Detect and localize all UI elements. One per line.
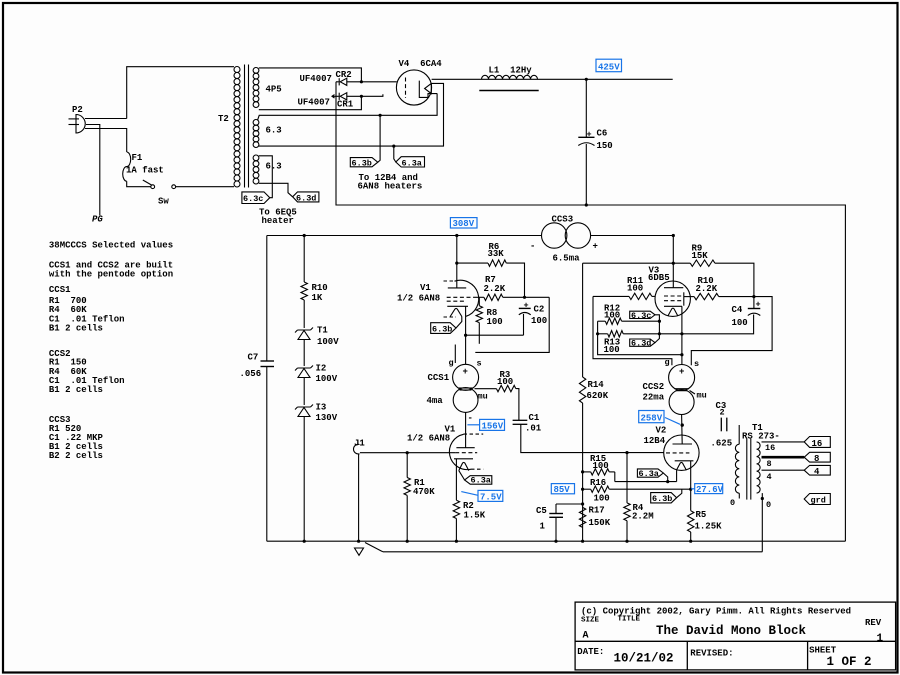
tag 4 — [804, 465, 830, 475]
svg-text:R16: R16 — [590, 478, 606, 488]
transformer T2 — [234, 65, 259, 188]
T1 primary coil — [735, 444, 739, 493]
svg-text:1K: 1K — [312, 293, 323, 303]
svg-text:100: 100 — [487, 317, 503, 327]
wire CCS1 mu to R3 — [475, 388, 497, 390]
svg-text:mu: mu — [478, 392, 488, 402]
svg-text:0: 0 — [766, 500, 771, 510]
V1 triode plate bar — [456, 447, 474, 449]
svg-text:C7: C7 — [248, 353, 259, 363]
resistor R14 620K — [579, 377, 585, 541]
resistor R2 1.5K — [453, 500, 459, 541]
resistor R12 100 — [605, 318, 621, 324]
wire 6.3b link — [677, 489, 682, 498]
tag 6.3a heater — [396, 157, 425, 167]
svg-text:.01: .01 — [525, 424, 542, 434]
wire C1 to V2 grid — [521, 424, 664, 452]
rectifier tube V4 — [396, 70, 672, 105]
svg-text:100: 100 — [593, 461, 609, 471]
wire 4P5 bottom tap riser — [259, 96, 362, 109]
wire R15 drop — [614, 472, 616, 482]
zener I3 — [295, 405, 313, 410]
svg-text:CCS1: CCS1 — [428, 373, 450, 383]
wire R7 to wrap node — [503, 296, 549, 298]
svg-text:1: 1 — [540, 522, 546, 532]
svg-text:470K: 470K — [413, 487, 435, 497]
wire riser to top rail — [127, 67, 234, 119]
T1 core — [746, 439, 748, 500]
svg-text:85V: 85V — [554, 485, 571, 495]
svg-text:4ma: 4ma — [427, 396, 444, 406]
resistor R6 33K — [488, 260, 506, 266]
wire heater bus — [615, 481, 677, 483]
wire B- vertical from diodes — [336, 82, 845, 541]
svg-text:REVISED:: REVISED: — [690, 649, 733, 659]
tag 6.3d V3 — [630, 339, 655, 346]
wire heater to 6.3b tag — [456, 317, 462, 329]
svg-text:+: + — [679, 367, 684, 377]
fuse F1 — [123, 152, 131, 181]
svg-text:6.3a: 6.3a — [471, 476, 491, 486]
svg-text:10/21/02: 10/21/02 — [614, 652, 674, 666]
V1 triode cathode bar — [454, 458, 473, 460]
current source CCS3 — [542, 223, 567, 248]
resistor R10 2.2K — [694, 293, 719, 299]
V3 heater — [668, 308, 678, 316]
wire 6.3c link — [655, 315, 659, 321]
svg-text:425V: 425V — [598, 63, 620, 73]
svg-text:.056: .056 — [240, 369, 262, 379]
T2 primary winding — [234, 67, 240, 73]
svg-text:620K: 620K — [587, 391, 609, 401]
wire rail to R6 junction and V1 plate — [456, 236, 458, 288]
wire 6.3 low top tap to 6.3c — [259, 156, 273, 198]
svg-text:100: 100 — [627, 284, 643, 294]
V4 plate bar dashed — [405, 78, 407, 99]
capacitor C2 — [519, 307, 531, 309]
wire R9 15K feed — [583, 262, 691, 264]
wire heater to 6.3a — [459, 471, 465, 480]
tube V2 circle — [664, 435, 699, 470]
switch Sw — [151, 185, 155, 189]
wire CR1 output — [336, 94, 383, 96]
V4 cathode structure — [419, 81, 437, 98]
wire 6.3 low bottom tap to 6.3d — [259, 183, 293, 197]
svg-text:308V: 308V — [453, 219, 475, 229]
svg-text:+: + — [587, 130, 592, 140]
svg-text:A: A — [583, 631, 589, 642]
wire cathode node to C2 — [466, 334, 524, 336]
svg-text:heater: heater — [262, 216, 294, 226]
wire plug to fuse — [85, 129, 127, 153]
svg-text:6.3a: 6.3a — [402, 158, 422, 168]
svg-text:8: 8 — [814, 454, 819, 464]
svg-text:1A fast: 1A fast — [126, 166, 164, 176]
voltage label 258V — [639, 411, 680, 425]
junction heater bus / tag drop — [379, 114, 382, 117]
svg-text:8: 8 — [767, 459, 772, 469]
svg-text:-: - — [468, 414, 473, 424]
wire 6.3b tag drop — [378, 115, 380, 162]
svg-text:mu: mu — [697, 391, 707, 401]
svg-text:6.3: 6.3 — [266, 162, 282, 172]
svg-text:12B4: 12B4 — [644, 436, 666, 446]
wire R3 to C1 — [516, 389, 519, 421]
svg-text:CCS1: CCS1 — [49, 285, 71, 295]
svg-text:22ma: 22ma — [643, 393, 665, 403]
svg-text:R5: R5 — [696, 510, 707, 520]
svg-text:2.2K: 2.2K — [696, 284, 718, 294]
svg-text:+: + — [524, 301, 529, 311]
V3 cathode bar — [664, 305, 682, 307]
wire main rail — [267, 235, 674, 237]
svg-text:6.3b: 6.3b — [432, 325, 452, 335]
junction 4P5 top / CR2 wire — [360, 80, 363, 83]
wire rail to R10 — [303, 236, 305, 283]
V1 triode heater — [459, 462, 469, 470]
zener I2 — [295, 366, 313, 371]
svg-text:s: s — [477, 359, 482, 369]
V2 plate bar — [673, 443, 693, 445]
svg-text:100V: 100V — [317, 337, 339, 347]
choke L1 — [479, 75, 538, 90]
svg-text:156V: 156V — [482, 422, 504, 432]
svg-text:16: 16 — [765, 443, 775, 453]
wire 6.3 mid bottom tap — [259, 83, 444, 146]
V1 pentode heater — [450, 308, 462, 316]
svg-text:C6: C6 — [597, 129, 608, 139]
svg-text:6.3b: 6.3b — [652, 494, 672, 504]
svg-text:100: 100 — [604, 345, 620, 355]
tag 6.3b V2 — [651, 493, 677, 503]
wire tap 16 — [762, 441, 805, 443]
svg-text:R14: R14 — [588, 380, 605, 390]
svg-text:+: + — [756, 300, 761, 310]
svg-text:6.3a: 6.3a — [639, 469, 659, 479]
svg-text:UF4007: UF4007 — [298, 98, 330, 108]
resistor R9 15K — [690, 260, 715, 266]
svg-text:C1: C1 — [529, 413, 540, 423]
resistor R11 100 — [629, 293, 652, 299]
wire R14 ladder column — [582, 263, 584, 377]
svg-text:4: 4 — [767, 472, 772, 482]
wire secondary bottom to lower rail — [761, 493, 763, 552]
svg-text:6.3: 6.3 — [266, 126, 282, 136]
V2 grid dashes — [666, 452, 689, 454]
svg-text:g: g — [449, 358, 454, 368]
resistor R5 1.25K — [688, 511, 694, 532]
svg-text:33K: 33K — [488, 249, 505, 259]
wire R13 — [598, 333, 608, 335]
svg-text:100: 100 — [604, 311, 620, 321]
wire V3 cathode to CCS2 — [681, 306, 683, 364]
wire 4P5 top tap to CR2 node — [259, 68, 362, 81]
wire fuse to switch — [127, 181, 151, 187]
svg-text:2: 2 — [720, 408, 725, 418]
svg-text:B1 2 cells: B1 2 cells — [49, 324, 103, 334]
tag 6.3c V3 — [630, 311, 655, 318]
svg-text:16: 16 — [812, 439, 823, 449]
resistor R13 100 — [608, 331, 624, 337]
tag 6.3d — [293, 192, 319, 202]
svg-text:6DB5: 6DB5 — [648, 273, 670, 283]
svg-text:150: 150 — [597, 141, 613, 151]
V3 inner grid tie bar — [683, 292, 685, 305]
svg-text:6.3b: 6.3b — [352, 159, 372, 169]
svg-text:38MCCCS Selected values: 38MCCCS Selected values — [49, 241, 173, 251]
svg-text:CR2: CR2 — [336, 70, 352, 80]
wire plug ground pin — [86, 125, 100, 216]
svg-text:150K: 150K — [589, 518, 611, 528]
svg-text:s: s — [694, 359, 699, 369]
svg-text:1/2 6AN8: 1/2 6AN8 — [407, 434, 450, 444]
wire CCS2 s bootstrap — [691, 297, 772, 366]
arrow tick CR1 left — [332, 95, 336, 98]
capacitor C3 — [721, 418, 727, 432]
wire rail to V3 plate — [672, 236, 674, 288]
svg-text:258V: 258V — [641, 414, 663, 424]
svg-text:UF4007: UF4007 — [300, 74, 332, 84]
svg-text:6AN8 heaters: 6AN8 heaters — [358, 182, 423, 192]
svg-text:V4 6CA4: V4 6CA4 — [399, 59, 443, 69]
tag 6.3b V1 — [431, 323, 456, 334]
svg-text:B2 2 cells: B2 2 cells — [49, 451, 103, 461]
svg-text:SHEET: SHEET — [809, 646, 837, 656]
wire ground rail — [267, 540, 846, 542]
diode CR1 — [340, 93, 347, 100]
svg-text:-: - — [530, 242, 535, 252]
svg-text:100: 100 — [594, 494, 610, 504]
svg-text:T2: T2 — [218, 114, 229, 124]
svg-text:Sw: Sw — [158, 197, 169, 207]
capacitor C6 — [578, 79, 594, 205]
wire wrap feedback — [475, 297, 549, 352]
svg-text:with the pentode option: with the pentode option — [49, 270, 173, 280]
voltage label 85V — [551, 484, 574, 494]
svg-text:R2: R2 — [463, 501, 474, 511]
voltage label 7.5V — [461, 490, 503, 501]
svg-text:4P5: 4P5 — [266, 85, 282, 95]
svg-text:6.5ma: 6.5ma — [553, 254, 581, 264]
svg-text:6.3c: 6.3c — [243, 194, 263, 204]
resistor R16 100 — [583, 488, 591, 490]
wire CCS2 to V2 plate — [681, 415, 684, 445]
resistor R1 470K — [404, 453, 410, 542]
V2 heater — [676, 462, 686, 470]
input jack J1 — [354, 444, 360, 541]
wire R13 to cathode node and C4 return — [623, 315, 753, 334]
svg-text:2.2K: 2.2K — [484, 284, 506, 294]
svg-text:1.5K: 1.5K — [464, 511, 486, 521]
capacitor C5 — [556, 503, 583, 505]
wire 6.3a tag drop — [394, 146, 396, 162]
T1 primary lead — [738, 425, 740, 444]
wire V2 cathode to R5 — [690, 461, 692, 511]
T1 primary bottom lead — [738, 493, 740, 498]
svg-text:100: 100 — [497, 377, 513, 387]
svg-text:RS 273-: RS 273- — [742, 432, 780, 442]
V3 plate bar — [664, 287, 683, 289]
tag 8 — [804, 452, 830, 462]
T2 secondary 4P5 — [253, 68, 259, 74]
resistor R8 100 — [478, 297, 480, 306]
wire V3 grid to R10 — [684, 296, 694, 298]
resistor R10 1K — [301, 282, 307, 300]
V2 cathode bar — [675, 460, 694, 462]
svg-text:CR1: CR1 — [337, 100, 354, 110]
wire cathode to R2 — [455, 459, 457, 500]
svg-text:+: + — [463, 367, 468, 377]
CCS1 gate stub — [454, 345, 456, 364]
V1 pentode plate bar — [448, 287, 466, 289]
V3 grid dashes — [664, 295, 683, 297]
capacitor C7 — [261, 360, 275, 362]
svg-text:7.5V: 7.5V — [480, 493, 502, 503]
svg-text:T1: T1 — [317, 326, 328, 336]
svg-text:TITLE: TITLE — [618, 616, 641, 624]
resistor R17 150K — [579, 507, 585, 527]
wire R9 to C4 node — [715, 263, 754, 308]
svg-text:P2: P2 — [72, 105, 83, 115]
svg-text:C2: C2 — [534, 305, 545, 315]
svg-text:+: + — [593, 242, 598, 252]
svg-text:6.3c: 6.3c — [631, 311, 651, 321]
svg-text:1 OF 2: 1 OF 2 — [827, 655, 872, 669]
wire CR2 output to V4 plate — [336, 81, 397, 83]
svg-text:100: 100 — [732, 318, 748, 328]
svg-text:F1: F1 — [132, 153, 143, 163]
current source CCS1 — [453, 364, 479, 390]
V4 B+ output wire to L1 and beyond — [432, 78, 673, 80]
tube V3 circle — [655, 281, 690, 316]
wire grid to J1 — [360, 452, 455, 454]
svg-text:1: 1 — [877, 633, 884, 645]
tag grd — [804, 494, 830, 505]
wire cathode down to CCS1 — [465, 306, 467, 364]
svg-text:CCS2: CCS2 — [643, 382, 665, 392]
tag 6.3b — [350, 158, 378, 167]
wire v1 gate reference — [593, 296, 672, 365]
resistor R4 2.2M — [626, 453, 628, 503]
wire rail to C7 — [266, 236, 268, 362]
svg-text:R17: R17 — [589, 506, 605, 516]
wire R10 to C4 node — [719, 296, 754, 298]
wire R12 — [598, 320, 606, 322]
svg-text:R10: R10 — [312, 283, 328, 293]
wire tap 4 — [762, 469, 805, 471]
tube V1 triode envelope — [449, 434, 471, 469]
svg-text:130V: 130V — [316, 413, 338, 423]
svg-text:15K: 15K — [692, 251, 709, 261]
svg-text:0: 0 — [730, 498, 735, 508]
diode CR2 — [340, 78, 347, 85]
wire R11 grid feed — [593, 295, 629, 297]
wire grid to R7 — [474, 296, 484, 298]
tube V1 pentode envelope — [455, 280, 479, 316]
wire v2 cathode reference — [598, 321, 682, 355]
svg-text:CCS3: CCS3 — [552, 215, 574, 225]
svg-text:2.2M: 2.2M — [632, 512, 654, 522]
wire diagonal to lower rail — [365, 543, 383, 552]
T2 secondary 6.3 mid — [253, 120, 259, 126]
svg-text:B1 2 cells: B1 2 cells — [49, 385, 103, 395]
tag 6.3c — [242, 192, 270, 204]
svg-text:I3: I3 — [316, 403, 327, 413]
V1 triode grid dashes — [455, 452, 477, 454]
wire lower return rail — [383, 551, 763, 553]
svg-text:g: g — [665, 358, 670, 368]
svg-text:R1 150: R1 150 — [49, 358, 87, 368]
wire 6.3a link — [663, 473, 667, 482]
svg-text:C4: C4 — [732, 305, 743, 315]
svg-text:27.6V: 27.6V — [696, 485, 724, 495]
wire 6.3d link — [655, 334, 659, 343]
capacitor C1 — [513, 420, 528, 424]
wire tap 8 thick — [762, 456, 805, 459]
voltage label 27.6V — [691, 484, 723, 494]
svg-text:100: 100 — [531, 316, 547, 326]
V1 pentode cathode bar — [447, 305, 468, 307]
svg-text:V2: V2 — [656, 426, 667, 436]
wire switch to primary — [176, 186, 234, 188]
wire plug to top rail riser — [85, 118, 127, 120]
svg-text:J1: J1 — [354, 439, 365, 449]
junction 6.3a drop — [392, 145, 395, 148]
tag 6.3a V1 — [465, 476, 492, 485]
svg-text:.625: .625 — [711, 439, 733, 449]
voltage label 425V — [596, 59, 622, 71]
voltage label 156V — [467, 419, 504, 430]
svg-text:4: 4 — [814, 467, 820, 477]
wire R6 to C2 node — [506, 263, 524, 297]
wire R6 branch — [457, 262, 488, 264]
plug P2 — [76, 115, 85, 134]
T2 core — [244, 65, 246, 188]
T2 secondary 6.3 low — [253, 155, 259, 161]
svg-text:C5: C5 — [536, 506, 547, 516]
T1 secondary coil — [757, 442, 761, 493]
svg-text:100V: 100V — [316, 374, 338, 384]
voltage label 308V — [450, 218, 477, 228]
tag 16 — [804, 437, 830, 448]
resistor R7 2.2K — [484, 294, 503, 300]
svg-text:DATE:: DATE: — [577, 647, 604, 657]
svg-text:L1 12Hy: L1 12Hy — [489, 66, 533, 76]
svg-text:I2: I2 — [316, 364, 327, 374]
wire heater left leg — [676, 470, 678, 481]
junction 4P5 bottom / CR1 wire — [360, 95, 363, 98]
svg-text:The David Mono Block: The David Mono Block — [656, 624, 807, 638]
svg-text:SIZE: SIZE — [581, 617, 600, 625]
ground symbol — [355, 548, 364, 555]
wire 6.3 mid top tap heater bus — [258, 94, 438, 121]
tag 6.3a V2 — [637, 469, 663, 477]
svg-text:grd: grd — [811, 496, 826, 506]
svg-text:6.3d: 6.3d — [296, 194, 316, 204]
zener T1 — [295, 328, 313, 333]
svg-text:PG: PG — [92, 215, 103, 225]
CCS2 mu tick — [690, 391, 696, 395]
svg-text:V1: V1 — [420, 283, 431, 293]
resistor R3 100 — [496, 385, 515, 391]
svg-text:1/2 6AN8: 1/2 6AN8 — [397, 294, 440, 304]
wire CCS1 to triode plate — [465, 412, 467, 447]
svg-text:6.3d: 6.3d — [631, 339, 651, 349]
wire heater node down to R13 — [658, 321, 660, 334]
resistor R15 100 — [583, 471, 591, 473]
capacitor C4 — [748, 308, 761, 310]
svg-text:1.25K: 1.25K — [695, 522, 723, 532]
